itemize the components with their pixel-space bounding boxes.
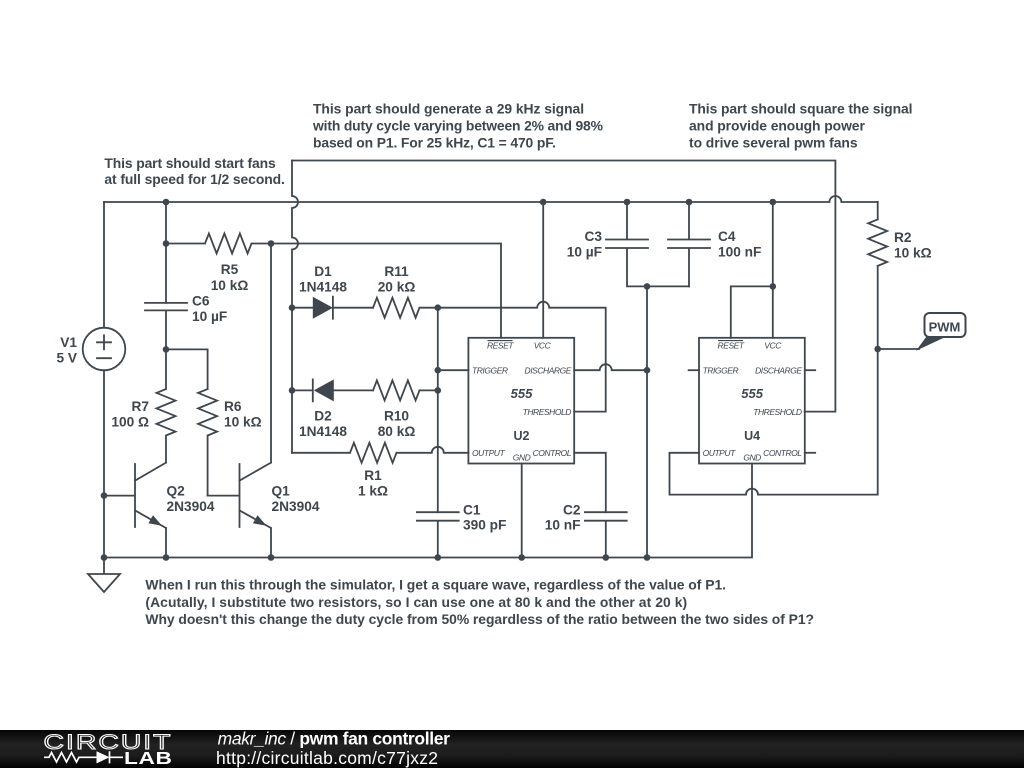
wire U2 gnd stub (521, 464, 523, 558)
svg-text:RESET: RESET (718, 341, 745, 351)
U2 RESET overline (488, 340, 513, 342)
diode D1 body (313, 297, 333, 319)
svg-text:555: 555 (511, 386, 533, 401)
svg-text:5 V: 5 V (56, 350, 77, 365)
transistor Q1 (208, 463, 271, 558)
svg-text:C2: C2 (563, 502, 581, 517)
junction Q2 base / V1 line (101, 492, 108, 499)
svg-text:(Acutally, I substitute two re: (Acutally, I substitute two resistors, s… (145, 594, 687, 610)
diode D2 body (314, 379, 334, 401)
svg-text:D1: D1 (314, 264, 332, 279)
PWM flag box (925, 313, 966, 337)
junction VCC rail / C4 (686, 199, 693, 206)
diode D1 wires (292, 297, 373, 319)
svg-text:When I run this through the si: When I run this through the simulator, I… (145, 577, 726, 593)
svg-text:PWM: PWM (929, 320, 961, 335)
svg-text:Why doesn't this change the du: Why doesn't this change the duty cycle f… (145, 611, 814, 627)
IC U2 555 box (468, 338, 574, 464)
ground rail (104, 464, 752, 558)
resistor R7 (157, 349, 176, 462)
svg-text:D2: D2 (314, 408, 332, 423)
junction ground rail / C2 (603, 554, 610, 561)
svg-text:1 kΩ: 1 kΩ (358, 483, 388, 498)
wire U4 discharge stub (805, 369, 815, 371)
capacitor C4 (668, 202, 710, 286)
voltage source V1 (83, 328, 126, 371)
IC U2 pin labels (472, 341, 572, 463)
svg-text:100 Ω: 100 Ω (111, 415, 149, 430)
junction ground rail / V1 (101, 554, 108, 561)
svg-text:V1: V1 (60, 335, 77, 350)
resistor R6 (198, 389, 217, 496)
resistor R5 (166, 234, 271, 254)
svg-text:This part should square the si: This part should square the signal (689, 101, 912, 117)
junction U2 discharge / gnd line (644, 367, 651, 374)
wire U2 discharge with hop over x=605.7 (574, 364, 647, 370)
wire U4 reset jog (731, 286, 773, 337)
wire node to R6 top (166, 349, 208, 389)
svg-text:10 kΩ: 10 kΩ (224, 415, 262, 430)
junction VCC rail / U2 VCC stub (540, 199, 547, 206)
wire PWM tap (878, 348, 919, 350)
svg-text:OUTPUT: OUTPUT (472, 448, 506, 458)
junction R11 right node (435, 304, 442, 311)
svg-text:TRIGGER: TRIGGER (703, 366, 739, 376)
svg-text:R6: R6 (224, 399, 242, 414)
svg-text:http://circuitlab.com/c77jxz2: http://circuitlab.com/c77jxz2 (216, 748, 438, 768)
wire top rail (net to U4 threshold) (292, 161, 835, 412)
svg-text:80 kΩ: 80 kΩ (378, 424, 416, 439)
svg-text:This part should generate a 29: This part should generate a 29 kHz signa… (313, 101, 584, 117)
junction VCC rail / U4 VCC (770, 199, 777, 206)
svg-text:based on P1. For 25 kHz, C1 =: based on P1. For 25 kHz, C1 = 470 pF. (313, 134, 556, 150)
svg-text:R1: R1 (364, 468, 382, 483)
junction D1 anode (289, 304, 296, 311)
junction ground rail / discharge line (644, 554, 651, 561)
junction U4 reset-vcc (770, 283, 777, 290)
transistor Q2 emitter arrow (148, 515, 162, 525)
svg-text:10 kΩ: 10 kΩ (211, 278, 249, 293)
junction PWM node (874, 346, 881, 353)
voltage source V1 wires (103, 202, 105, 558)
svg-text:CONTROL: CONTROL (533, 448, 572, 458)
IC U4 555 box (699, 338, 805, 464)
svg-text:at full speed for 1/2 second.: at full speed for 1/2 second. (104, 171, 284, 187)
capacitor C6 (145, 303, 187, 311)
wire Q1 collector vertical (270, 244, 272, 463)
svg-text:1N4148: 1N4148 (299, 279, 347, 294)
IC U4 pin labels (703, 341, 803, 463)
svg-text:R5: R5 (221, 262, 239, 277)
svg-text:OUTPUT: OUTPUT (703, 448, 737, 458)
wire U2 control to C2 (574, 453, 606, 512)
svg-text:This part should start fans: This part should start fans (104, 155, 276, 171)
svg-text:TRIGGER: TRIGGER (472, 366, 508, 376)
svg-text:R11: R11 (384, 264, 409, 279)
svg-text:DISCHARGE: DISCHARGE (755, 366, 802, 376)
svg-text:VCC: VCC (534, 341, 552, 351)
ground symbol (88, 558, 120, 593)
PWM flag pointer (916, 337, 947, 351)
svg-text:1N4148: 1N4148 (299, 424, 347, 439)
svg-text:and provide enough power: and provide enough power (689, 117, 865, 133)
svg-text:C4: C4 (718, 229, 736, 244)
wire R5 right to U2 reset stub (271, 244, 501, 338)
svg-text:DISCHARGE: DISCHARGE (525, 366, 572, 376)
svg-text:20 kΩ: 20 kΩ (378, 279, 416, 294)
resistor R11 (373, 298, 438, 318)
svg-text:10 kΩ: 10 kΩ (894, 245, 932, 260)
svg-text:C3: C3 (585, 229, 603, 244)
wire node to threshold jog with hop over VCC stub (438, 302, 606, 412)
svg-text:THRESHOLD: THRESHOLD (753, 407, 802, 417)
svg-text:100 nF: 100 nF (718, 244, 761, 259)
transistor Q2 (104, 463, 166, 558)
junction VCC rail / C6-R5 branch (163, 199, 170, 206)
svg-text:GND: GND (743, 453, 761, 463)
svg-text:Q2: Q2 (167, 484, 186, 499)
wire U2 trigger (438, 369, 469, 371)
svg-text:C6: C6 (192, 294, 210, 309)
junction ground rail / Q1 emitter (268, 554, 275, 561)
capacitor C3 (606, 202, 689, 286)
wire mid vertical x=437.8 down to C1 (437, 308, 439, 513)
svg-text:VCC: VCC (764, 341, 782, 351)
svg-text:R2: R2 (894, 230, 912, 245)
svg-text:RESET: RESET (487, 341, 514, 351)
capacitor C1 (417, 512, 459, 557)
resistor R10 (373, 380, 438, 400)
wire U2 vcc stub (542, 202, 544, 338)
svg-text:LAB: LAB (124, 748, 173, 768)
junction VCC rail / C3 (624, 199, 631, 206)
wire VCC top rail y=202 with hop over x=835 (104, 196, 878, 202)
wire U4 vcc vertical (772, 202, 774, 338)
svg-text:THRESHOLD: THRESHOLD (523, 407, 572, 417)
junction C3-C4 bottom (644, 283, 651, 290)
svg-text:10 nF: 10 nF (545, 518, 581, 533)
diode D2 wires (292, 379, 373, 401)
transistor Q1 emitter arrow (253, 515, 267, 525)
junction C6 bottom / R7 / R6 (163, 346, 170, 353)
svg-text:2N3904: 2N3904 (272, 499, 320, 514)
wire left vertical x=292 with hops, from top rail corner down to R1 corner (292, 161, 298, 453)
annotation: generate 29kHz (104, 101, 912, 627)
svg-text:390 pF: 390 pF (463, 518, 506, 533)
junction R10 right node (435, 387, 442, 394)
capacitor C2 (585, 512, 627, 557)
junction ground rail / Q2 emitter (163, 554, 170, 561)
junction D2 cathode (289, 387, 296, 394)
wire U4 control stub (805, 452, 815, 454)
svg-text:with duty cycle varying betwee: with duty cycle varying between 2% and 9… (312, 117, 603, 133)
junction R5 right / Q1 collector (268, 240, 275, 247)
wire U4 trigger stub (689, 369, 699, 371)
wire x=166 from VCC rail through C6 to node (165, 202, 167, 349)
wire U4 output loop to R2 bottom with hop over x=752 (670, 266, 878, 495)
resistor R1 with hop over x=437.8 (292, 443, 468, 463)
svg-text:CONTROL: CONTROL (763, 448, 802, 458)
svg-text:R7: R7 (132, 399, 150, 414)
svg-text:U2: U2 (514, 429, 530, 443)
U4 RESET overline (718, 340, 743, 342)
svg-text:to drive several pwm fans: to drive several pwm fans (689, 134, 858, 150)
junction R5 left node (163, 240, 170, 247)
svg-text:2N3904: 2N3904 (167, 499, 215, 514)
wire ground vertical x=647 (646, 286, 648, 557)
svg-text:10 µF: 10 µF (567, 244, 602, 259)
svg-text:makr_inc / pwm fan controller: makr_inc / pwm fan controller (218, 728, 451, 748)
svg-text:Q1: Q1 (272, 484, 291, 499)
svg-text:555: 555 (741, 386, 763, 401)
svg-text:10 µF: 10 µF (192, 309, 227, 324)
svg-text:R10: R10 (384, 408, 409, 423)
junction ground rail / C1 (435, 554, 442, 561)
junction U2 trigger node (435, 367, 442, 374)
svg-text:U4: U4 (744, 429, 760, 443)
junction ground rail / U2 GND (518, 554, 525, 561)
svg-text:C1: C1 (463, 502, 481, 517)
CircuitLab logo resistor-diode symbol (44, 751, 123, 763)
resistor R2 (868, 202, 887, 266)
svg-text:GND: GND (513, 453, 531, 463)
